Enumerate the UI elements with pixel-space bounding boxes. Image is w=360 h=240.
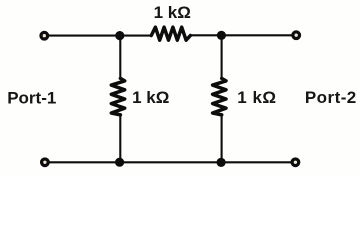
wire: top-right segment (R1 to Port-2 top terminal) xyxy=(190,34,292,36)
terminal: Port-2 bottom (open circle) xyxy=(292,159,299,166)
node A: junction dot top-left xyxy=(115,31,124,40)
svg-text:Port-2: Port-2 xyxy=(305,88,357,107)
node C: junction dot bottom-left xyxy=(115,158,124,167)
wire: bottom rail (Port-1 bottom terminal to Port-2 bottom terminal) xyxy=(48,161,292,163)
wire: top-left segment (Port-1 top terminal to node A) xyxy=(48,35,152,37)
svg-text:1 kΩ: 1 kΩ xyxy=(237,88,276,107)
svg-text:1 kΩ: 1 kΩ xyxy=(154,3,191,22)
wire: right shunt bottom lead (R3 down to node D) xyxy=(221,115,223,163)
node D: junction dot bottom-right xyxy=(217,158,226,167)
wire: right shunt top lead (node B down to R3) xyxy=(221,35,223,78)
terminal: Port-1 top (open circle) xyxy=(41,32,48,39)
terminal: Port-1 bottom (open circle) xyxy=(42,159,49,166)
resistor R2 1 kΩ (left shunt) xyxy=(111,78,124,115)
terminal: Port-2 top (open circle) xyxy=(293,32,300,39)
resistor R1 1 kΩ (series, top) xyxy=(151,27,190,40)
svg-text:1 kΩ: 1 kΩ xyxy=(132,88,169,107)
node B: junction dot top-right xyxy=(217,31,226,40)
svg-text:Port-1: Port-1 xyxy=(7,89,56,108)
wire: left shunt bottom lead (R2 down to node C) xyxy=(119,115,121,162)
wire: left shunt top lead (node A down to R2) xyxy=(119,36,121,79)
resistor R3 1 kΩ (right shunt) xyxy=(213,78,226,115)
